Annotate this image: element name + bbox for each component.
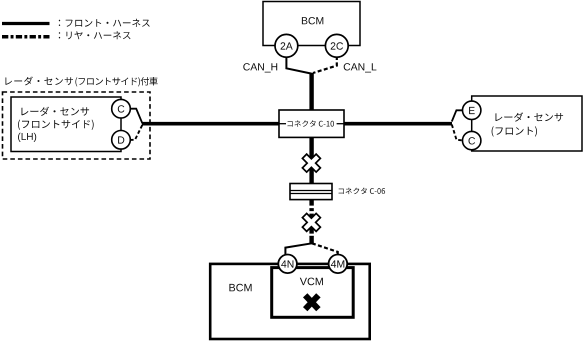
connector C-06 divider line 2 xyxy=(290,193,332,195)
pin label: 4N xyxy=(281,260,293,267)
label: radar sensor xyxy=(21,107,89,116)
net label: CAN_L xyxy=(344,63,377,72)
wire stub inside C-10 (right) xyxy=(337,123,344,125)
pin label: C xyxy=(118,105,125,112)
label: radar sensor (front side) equipped vehicles xyxy=(5,77,73,86)
wire: junction to pin 4N (solid) xyxy=(285,243,312,255)
connector C-06 divider line 1 xyxy=(290,190,332,192)
enclosure: radar sensor option (dashed box) xyxy=(3,92,151,159)
wire: C-10 to C-06 (thick) xyxy=(309,137,313,184)
BCM box (top) xyxy=(263,2,360,46)
wire: C to CAN bus (rear harness, dashed) xyxy=(452,125,463,141)
label: radar sensor (right) xyxy=(495,112,563,121)
legend label: rear harness xyxy=(59,31,131,39)
pin label: 2A xyxy=(281,42,293,49)
wire: trunk from junction to connector C-10 (thick) xyxy=(309,73,313,112)
BCM box (bottom) xyxy=(210,264,370,339)
wire stub inside C-10 (left) xyxy=(279,123,286,125)
label: (front) xyxy=(492,126,537,136)
radar sensor (front side) (LH) box xyxy=(11,97,121,152)
net label: CAN_H xyxy=(243,63,277,72)
legend line: rear harness (dash-dot) xyxy=(2,35,50,39)
pin C (left sensor) xyxy=(112,99,131,118)
wire: pin 2A CAN_H (solid) xyxy=(286,56,311,74)
label: (front side) xyxy=(18,120,94,130)
pin label: 4M xyxy=(331,260,344,267)
label: BCM (top) xyxy=(302,17,323,24)
pin 4N xyxy=(278,254,297,273)
pin label: E xyxy=(469,107,475,114)
pin 4M xyxy=(329,254,348,273)
connector C-06 box xyxy=(290,184,332,200)
label: VCM xyxy=(300,278,323,286)
wire: pin C to CAN bus (front harness) xyxy=(130,109,143,124)
fault mark X (filled) inside VCM xyxy=(305,295,318,309)
pin E (right sensor) xyxy=(463,101,481,119)
wire: junction to pin 4M (dashed) xyxy=(312,243,338,255)
wire: pin 2C CAN_L (dashed) xyxy=(313,56,337,73)
label: connector C-10 xyxy=(288,120,335,127)
wire: CAN bus right segment (thick) xyxy=(343,122,452,126)
no-connection mark X2 xyxy=(302,213,320,231)
pin C (right sensor) xyxy=(463,131,481,149)
wire: pin D to CAN bus (rear harness, dashed) xyxy=(130,125,142,140)
label: (LH) xyxy=(18,133,36,142)
label: BCM (bottom) xyxy=(229,284,251,292)
pin label: D xyxy=(118,136,124,143)
radar sensor (front) box xyxy=(472,96,582,151)
legend label: front harness xyxy=(59,19,150,27)
pin 2A xyxy=(275,34,298,57)
label: connector C-06 xyxy=(339,188,386,195)
pin 2C xyxy=(325,34,348,57)
label: (front side) equipped vehicles (cont.) xyxy=(75,77,157,87)
no-connection mark X1 xyxy=(302,154,320,172)
wire: CAN bus left segment (thick) xyxy=(142,122,280,126)
VCM box xyxy=(272,268,354,318)
wire: junction block above VCM split xyxy=(309,236,313,244)
pin label: 2C xyxy=(331,42,343,49)
pin label: C (right) xyxy=(469,137,476,144)
pin D (left sensor) xyxy=(112,131,131,150)
legend line: front harness (solid) xyxy=(2,22,50,25)
connector C-10 box xyxy=(279,110,344,137)
wire: C-06 to VCM junction (rear harness, thick dash-dot) xyxy=(309,200,313,237)
wire: E to CAN bus (front harness) xyxy=(452,110,463,121)
